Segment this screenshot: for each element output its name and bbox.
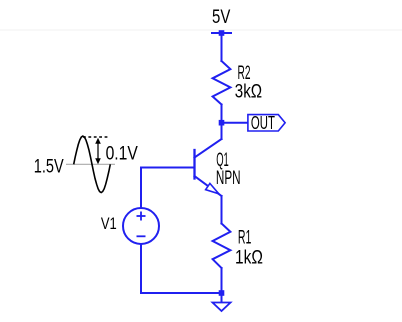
svg-text:5V: 5V <box>212 7 231 28</box>
svg-text:1.5V: 1.5V <box>34 156 64 177</box>
svg-text:OUT: OUT <box>251 113 275 133</box>
svg-text:0.1V: 0.1V <box>106 143 138 164</box>
svg-text:3kΩ: 3kΩ <box>235 81 262 102</box>
svg-text:1kΩ: 1kΩ <box>235 247 263 268</box>
svg-text:V1: V1 <box>101 215 117 233</box>
svg-text:R1: R1 <box>238 228 252 249</box>
svg-text:NPN: NPN <box>216 168 241 189</box>
